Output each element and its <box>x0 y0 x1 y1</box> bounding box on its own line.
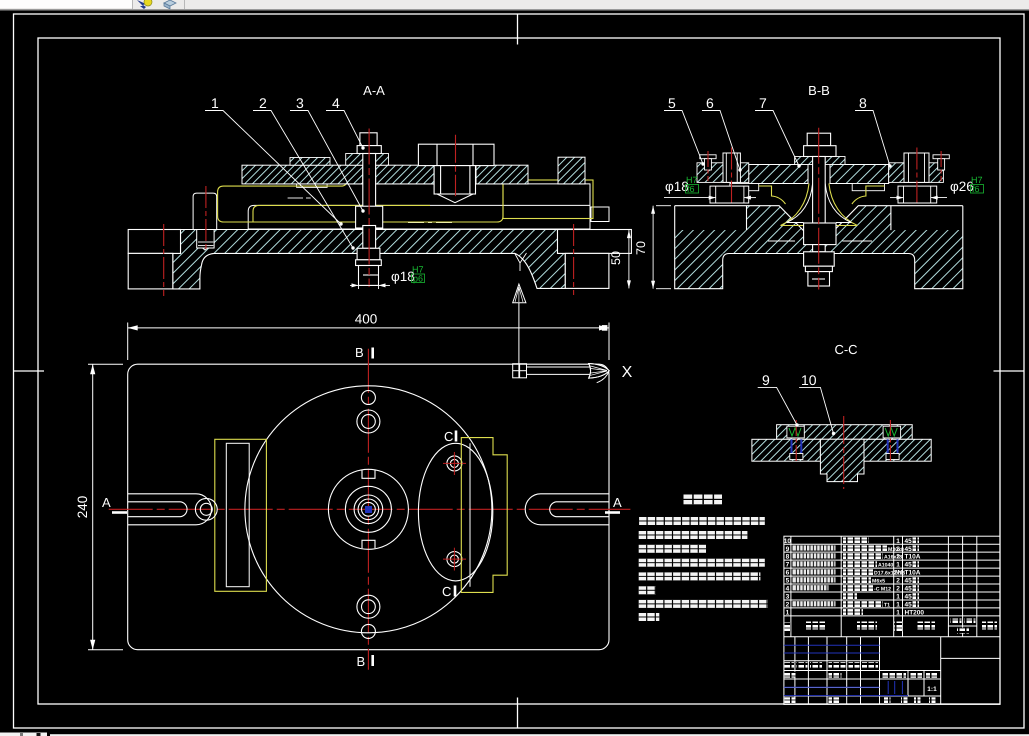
svg-text:7: 7 <box>759 95 767 111</box>
svg-text:4: 4 <box>786 586 790 593</box>
svg-text:B: B <box>355 345 364 360</box>
svg-text:45: 45 <box>905 578 913 585</box>
svg-text:2: 2 <box>259 95 267 111</box>
svg-text:T1: T1 <box>884 603 890 609</box>
svg-text:C: C <box>442 584 451 599</box>
svg-text:T10A: T10A <box>905 554 921 561</box>
svg-text:5: 5 <box>786 578 790 585</box>
svg-text:1: 1 <box>896 602 900 609</box>
svg-text:1: 1 <box>896 610 900 617</box>
svg-text:2: 2 <box>896 554 900 561</box>
svg-text:4: 4 <box>332 95 340 111</box>
svg-text:2: 2 <box>896 546 900 553</box>
svg-text:9: 9 <box>786 546 790 553</box>
svg-text:A-A: A-A <box>363 83 385 98</box>
svg-text:f6: f6 <box>687 184 695 194</box>
svg-text:45: 45 <box>905 602 913 609</box>
svg-text:45: 45 <box>905 562 913 569</box>
svg-text:f6: f6 <box>972 184 980 194</box>
svg-text:HT200: HT200 <box>905 610 925 617</box>
svg-text:2: 2 <box>896 586 900 593</box>
svg-text:C-C: C-C <box>834 342 857 357</box>
svg-text:A: A <box>102 495 111 510</box>
svg-text:2: 2 <box>896 578 900 585</box>
svg-text:45: 45 <box>905 594 913 601</box>
svg-text:45: 45 <box>905 586 913 593</box>
svg-text:45: 45 <box>905 546 913 553</box>
svg-text:45: 45 <box>905 538 913 545</box>
svg-text:1: 1 <box>896 562 900 569</box>
svg-text:7: 7 <box>786 562 790 569</box>
svg-text:5: 5 <box>668 95 676 111</box>
svg-text:3: 3 <box>786 594 790 601</box>
svg-text:1: 1 <box>896 594 900 601</box>
svg-text:8: 8 <box>859 95 867 111</box>
svg-text:50: 50 <box>609 251 623 265</box>
svg-text:240: 240 <box>75 496 90 519</box>
svg-text:2: 2 <box>786 602 790 609</box>
svg-text:T10A: T10A <box>905 570 921 577</box>
svg-text:A: A <box>613 495 622 510</box>
svg-text:3: 3 <box>296 95 304 111</box>
svg-text:M6x5: M6x5 <box>872 579 885 585</box>
svg-text:6: 6 <box>786 570 790 577</box>
svg-text:8: 8 <box>786 554 790 561</box>
svg-text:1:1: 1:1 <box>927 686 937 693</box>
svg-text:X: X <box>622 364 633 381</box>
svg-text:2N: 2N <box>894 570 903 577</box>
svg-text:10: 10 <box>801 372 817 388</box>
svg-text:C: C <box>444 429 453 444</box>
svg-text:-C M12: -C M12 <box>874 587 891 593</box>
svg-text:6: 6 <box>706 95 714 111</box>
svg-text:400: 400 <box>355 312 378 327</box>
svg-text:1: 1 <box>786 610 790 617</box>
svg-text:B: B <box>357 654 366 669</box>
svg-text:A1040: A1040 <box>878 563 893 569</box>
svg-text:B-B: B-B <box>808 83 830 98</box>
svg-text:70: 70 <box>634 241 648 255</box>
svg-text:1: 1 <box>211 95 219 111</box>
svg-text:1: 1 <box>896 538 900 545</box>
svg-text:p6: p6 <box>413 274 423 284</box>
svg-text:9: 9 <box>762 372 770 388</box>
svg-text:10: 10 <box>784 538 792 545</box>
